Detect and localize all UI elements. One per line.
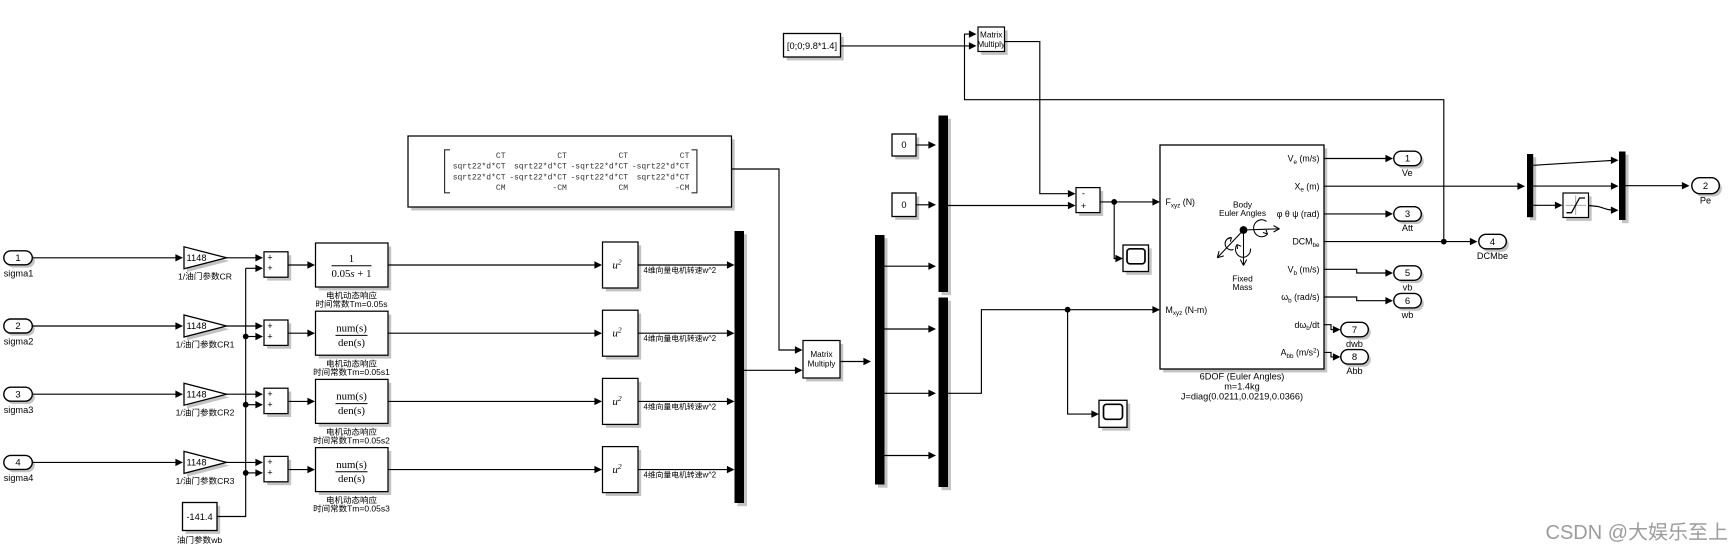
svg-text:Tm=0.05s2: Tm=0.05s2 — [347, 435, 390, 445]
wire sum to transfer fcn — [288, 469, 308, 471]
sum block row 1 — [267, 255, 291, 280]
wire -141.4 to sum inputs (vertical feedback) — [217, 268, 246, 516]
signal label 4维向量电机转速w^2 — [644, 334, 717, 343]
svg-text:CR2: CR2 — [217, 408, 234, 418]
watermark CSDN — [1546, 522, 1728, 544]
svg-text:φ θ ψ (rad): φ θ ψ (rad) — [1277, 209, 1320, 219]
wire transfer fcn to u^2 — [388, 400, 595, 402]
constant block [0;0;9.8*1.4] — [787, 37, 844, 61]
svg-text:-sqrt22*d*CT: -sqrt22*d*CT — [632, 163, 690, 172]
wire sigma1 to gain — [32, 257, 175, 259]
output port 5 vb — [1396, 269, 1424, 284]
svg-text:1/: 1/ — [176, 476, 184, 486]
svg-text:+: + — [267, 321, 272, 331]
svg-text:+: + — [267, 389, 272, 399]
svg-text:-sqrt22*d*CT: -sqrt22*d*CT — [570, 173, 628, 182]
wire wb feedback branch into sum — [246, 404, 256, 406]
mux1 (4 motor speeds) — [738, 234, 748, 506]
gain block 1148 (1/油门参数CR3) — [187, 455, 230, 477]
signal label 4维向量电机转速w^2 — [644, 266, 717, 275]
constant block 0 (lower) — [895, 196, 919, 220]
wire sigma2 to gain — [32, 325, 175, 327]
6DOF (Euler Angles) block — [1163, 148, 1327, 372]
wire 0 upper to mux2 — [916, 144, 929, 146]
wire Ve to port 1 — [1324, 158, 1386, 160]
wire transfer fcn to u^2 — [388, 264, 595, 266]
mux2 top (force vector) — [942, 119, 952, 296]
transfer fcn caption — [327, 359, 377, 367]
wire wb to port 6 — [1324, 297, 1386, 301]
svg-text:1148: 1148 — [187, 253, 207, 263]
wire wb feedback branch into sum — [246, 267, 256, 269]
svg-text:Tm=0.05s: Tm=0.05s — [349, 299, 387, 309]
svg-text:+: + — [267, 400, 272, 410]
DCM feedback wire to matrix multiply top input — [965, 34, 1444, 242]
svg-text:CT: CT — [680, 152, 690, 161]
svg-text:3: 3 — [15, 389, 20, 400]
svg-text:CSDN @: CSDN @ — [1546, 522, 1629, 544]
svg-text:0: 0 — [901, 140, 906, 150]
svg-text:1: 1 — [349, 253, 354, 265]
output port 7 dwb — [1343, 325, 1371, 340]
selector demux bar — [1530, 157, 1536, 220]
svg-text:sigma1: sigma1 — [4, 268, 34, 278]
math fcn u^2 block row 1 — [606, 245, 642, 291]
svg-text:Pe: Pe — [1700, 196, 1711, 206]
input port 1 (sigma1) — [6, 254, 35, 268]
output port 2 Pe — [1694, 181, 1722, 197]
svg-text:0.05s + 1: 0.05s + 1 — [332, 268, 372, 280]
svg-text:CR3: CR3 — [217, 476, 234, 486]
input port 3 (sigma3) — [6, 390, 35, 404]
transfer fcn caption — [327, 496, 377, 504]
gain caption — [176, 476, 235, 486]
svg-text:sqrt22*d*CT: sqrt22*d*CT — [453, 163, 506, 172]
svg-text:Ve: Ve — [1402, 168, 1413, 178]
gain block 1148 (1/油门参数CR2) — [187, 386, 230, 408]
gain block 1148 (1/油门参数CR) — [187, 250, 230, 272]
gain caption — [176, 340, 235, 350]
math fcn u^2 block row 3 — [606, 382, 642, 428]
svg-text:1/: 1/ — [178, 271, 186, 281]
math fcn u^2 block row 4 — [606, 450, 642, 496]
selector wire 1 (slanted) — [1533, 161, 1611, 166]
svg-text:1: 1 — [15, 253, 20, 264]
junction to scope1 — [1111, 199, 1117, 205]
svg-text:0: 0 — [901, 200, 906, 210]
6DOF center icon (body axes) — [1217, 220, 1279, 266]
wire matrix constant to matrix multiply — [732, 169, 796, 350]
signal label 4维向量电机转速w^2 — [644, 402, 717, 411]
wire gain to sum — [227, 325, 256, 327]
sum block row 2 — [267, 323, 291, 348]
wire sum to transfer fcn — [288, 264, 308, 266]
demux out 2 — [885, 328, 929, 330]
constant block 0 (upper) — [895, 137, 919, 159]
wire DCM to port 4 — [1324, 241, 1470, 243]
svg-text:w^2: w^2 — [701, 266, 716, 275]
gain caption — [178, 271, 232, 281]
wire wb feedback branch into sum — [246, 472, 256, 474]
wire sigma4 to gain — [32, 461, 175, 463]
demux out 4 — [885, 455, 929, 457]
svg-text:CM: CM — [496, 184, 506, 193]
constant block -141.4 — [186, 506, 221, 534]
svg-text:w^2: w^2 — [701, 402, 716, 411]
svg-text:-: - — [1082, 189, 1085, 200]
sum block row 3 — [267, 392, 291, 417]
wire u^2 to mux1 — [638, 332, 727, 334]
svg-text:num(s): num(s) — [336, 459, 367, 471]
transfer fcn caption — [327, 291, 377, 299]
selector wire 3 to saturation — [1533, 204, 1555, 206]
transfer fcn block row 1 — [319, 246, 392, 290]
svg-text:3: 3 — [1405, 209, 1410, 220]
wire Att to port 3 — [1324, 213, 1386, 215]
svg-text:w^2: w^2 — [701, 334, 716, 343]
svg-text:+: + — [267, 468, 272, 478]
output port 4 DCMbe — [1481, 237, 1509, 252]
sum2 block (gravity subtract) — [1079, 191, 1103, 216]
svg-text:1148: 1148 — [187, 321, 207, 331]
svg-text:dwb: dwb — [1346, 339, 1363, 349]
svg-text:1/: 1/ — [176, 408, 184, 418]
svg-text:vb: vb — [1403, 282, 1413, 292]
svg-text:1148: 1148 — [187, 389, 207, 399]
wire mux1 to matrix multiply — [744, 369, 795, 371]
svg-text:sigma3: sigma3 — [4, 405, 34, 415]
transfer fcn caption — [327, 428, 377, 436]
svg-text:4: 4 — [15, 458, 20, 469]
wire Abb to port 8 — [1324, 352, 1333, 357]
gain caption — [176, 408, 235, 418]
svg-text:CM: CM — [618, 184, 628, 193]
wire sum2 to 6DOF Fxyz — [1100, 201, 1153, 203]
svg-text:+: + — [267, 253, 272, 263]
caption 油门参数wb — [177, 535, 222, 545]
matrix bracket left — [445, 150, 450, 193]
svg-text:num(s): num(s) — [336, 391, 367, 403]
wire mux2 bottom to 6DOF Mxyz — [948, 310, 1153, 394]
input port 4 (sigma4) — [6, 458, 35, 472]
matrix multiply block — [806, 344, 843, 382]
matrix bracket right — [692, 150, 697, 193]
svg-text:DCMbe: DCMbe — [1477, 251, 1508, 261]
svg-text:4: 4 — [644, 402, 649, 411]
svg-text:-CM: -CM — [675, 184, 690, 193]
wire 0 lower to mux2 — [916, 204, 929, 206]
signal label 4维向量电机转速w^2 — [644, 471, 717, 480]
wire transfer fcn to u^2 — [388, 332, 595, 334]
junction to scope2 — [1065, 307, 1071, 313]
wire mux2 top to sum — [948, 205, 1068, 207]
svg-text:8: 8 — [1352, 352, 1357, 363]
svg-text:6: 6 — [1405, 296, 1410, 307]
wire gain to sum — [227, 461, 256, 463]
svg-text:w^2: w^2 — [701, 471, 716, 480]
svg-text:wb: wb — [210, 535, 222, 545]
wire dwb to port 7 — [1324, 325, 1333, 330]
sum block row 4 — [267, 460, 291, 485]
svg-text:J=diag(0.0211,0.0219,0.0366): J=diag(0.0211,0.0219,0.0366) — [1181, 392, 1303, 402]
svg-text:den(s): den(s) — [338, 405, 365, 417]
scope1 — [1126, 248, 1152, 275]
svg-text:sqrt22*d*CT: sqrt22*d*CT — [514, 163, 567, 172]
matrix multiply top block — [981, 30, 1008, 55]
svg-text:Att: Att — [1402, 223, 1414, 233]
svg-text:Multiply: Multiply — [808, 360, 837, 369]
svg-text:-141.4: -141.4 — [186, 512, 212, 522]
svg-text:5: 5 — [1405, 268, 1410, 279]
svg-text:2: 2 — [1703, 181, 1708, 192]
wire wb feedback branch into sum — [246, 336, 256, 338]
svg-text:sqrt22*d*CT: sqrt22*d*CT — [453, 173, 506, 182]
svg-text:den(s): den(s) — [338, 473, 365, 485]
demux (forces/moments) — [878, 238, 888, 488]
svg-text:CT: CT — [618, 152, 628, 161]
wire Xe to selector demux — [1324, 185, 1518, 187]
demux out 1 — [885, 265, 929, 267]
svg-text:Abb: Abb — [1346, 366, 1362, 376]
svg-text:CT: CT — [557, 152, 567, 161]
selector mux bar — [1622, 155, 1629, 224]
svg-text:4: 4 — [1490, 237, 1495, 248]
wire matrix multiply to demux — [840, 361, 864, 363]
svg-text:+: + — [1081, 201, 1086, 211]
transfer fcn block row 3 — [319, 383, 392, 427]
svg-text:6DOF (Euler Angles): 6DOF (Euler Angles) — [1200, 372, 1285, 382]
svg-text:-sqrt22*d*CT: -sqrt22*d*CT — [570, 163, 628, 172]
svg-text:Matrix: Matrix — [810, 350, 832, 359]
svg-text:CT: CT — [496, 152, 506, 161]
math fcn u^2 block row 2 — [606, 314, 642, 360]
gain block 1148 (1/油门参数CR1) — [187, 318, 230, 340]
svg-text:Tm=0.05s3: Tm=0.05s3 — [347, 504, 390, 514]
svg-text:Multiply: Multiply — [977, 40, 1006, 49]
svg-text:CR: CR — [220, 271, 232, 281]
svg-text:sigma4: sigma4 — [4, 473, 34, 483]
svg-text:+: + — [267, 263, 272, 273]
svg-text:7: 7 — [1352, 325, 1357, 336]
svg-text:wb: wb — [1401, 310, 1414, 320]
saturation block — [1566, 196, 1592, 221]
wire sigma3 to gain — [32, 393, 175, 395]
svg-text:Mass: Mass — [1232, 282, 1252, 292]
svg-text:-CM: -CM — [552, 184, 567, 193]
selector wire 2 (straight) — [1533, 185, 1611, 187]
output port 3 Att — [1396, 210, 1424, 225]
demux out 3 — [885, 392, 929, 394]
svg-text:sqrt22*d*CT: sqrt22*d*CT — [637, 173, 690, 182]
svg-text:m=1.4kg: m=1.4kg — [1224, 382, 1260, 392]
wire u^2 to mux1 — [638, 264, 727, 266]
wire u^2 to mux1 — [638, 400, 727, 402]
wire gain to sum — [227, 257, 256, 259]
wire selector mux to port 2 — [1626, 185, 1683, 187]
svg-text:1148: 1148 — [187, 458, 207, 468]
svg-text:1: 1 — [1405, 154, 1410, 165]
svg-text:4: 4 — [644, 471, 649, 480]
svg-text:[0;0;9.8*1.4]: [0;0;9.8*1.4] — [787, 41, 837, 51]
svg-text:num(s): num(s) — [336, 322, 367, 334]
input port 2 (sigma2) — [6, 322, 35, 336]
svg-text:2: 2 — [15, 321, 20, 332]
wire saturation to mux — [1589, 206, 1612, 211]
svg-text:Tm=0.05s1: Tm=0.05s1 — [347, 367, 390, 377]
svg-text:1/: 1/ — [176, 340, 184, 350]
svg-text:CR1: CR1 — [217, 340, 234, 350]
output port 6 wb — [1396, 296, 1424, 311]
wire gravity constant to matrix multiply top — [841, 45, 970, 47]
svg-text:4: 4 — [644, 266, 649, 275]
wire gain to sum — [227, 393, 256, 395]
wire u^2 to mux1 — [638, 469, 727, 471]
svg-text:+: + — [267, 331, 272, 341]
transfer fcn block row 2 — [319, 315, 392, 359]
svg-text:4: 4 — [644, 334, 649, 343]
svg-text:Matrix: Matrix — [980, 30, 1002, 39]
wire transfer fcn to u^2 — [388, 469, 595, 471]
mux2 bottom (moment vector) — [942, 301, 952, 491]
transfer fcn block row 4 — [319, 451, 392, 495]
svg-text:+: + — [267, 457, 272, 467]
wire Vb to port 5 — [1324, 269, 1386, 273]
wire sum to transfer fcn — [288, 400, 308, 402]
wire matrix multiply top to sum2 minus input — [1005, 42, 1069, 194]
output port 1 Ve — [1396, 154, 1424, 169]
svg-text:den(s): den(s) — [338, 337, 365, 349]
matrix constant block (mixing matrix) — [411, 139, 735, 210]
svg-text:sigma2: sigma2 — [4, 337, 34, 347]
output port 8 Abb — [1343, 352, 1371, 367]
svg-text:Euler Angles: Euler Angles — [1219, 208, 1266, 218]
wire sum to transfer fcn — [288, 332, 308, 334]
scope2 — [1102, 404, 1130, 431]
svg-text:-sqrt22*d*CT: -sqrt22*d*CT — [509, 173, 567, 182]
